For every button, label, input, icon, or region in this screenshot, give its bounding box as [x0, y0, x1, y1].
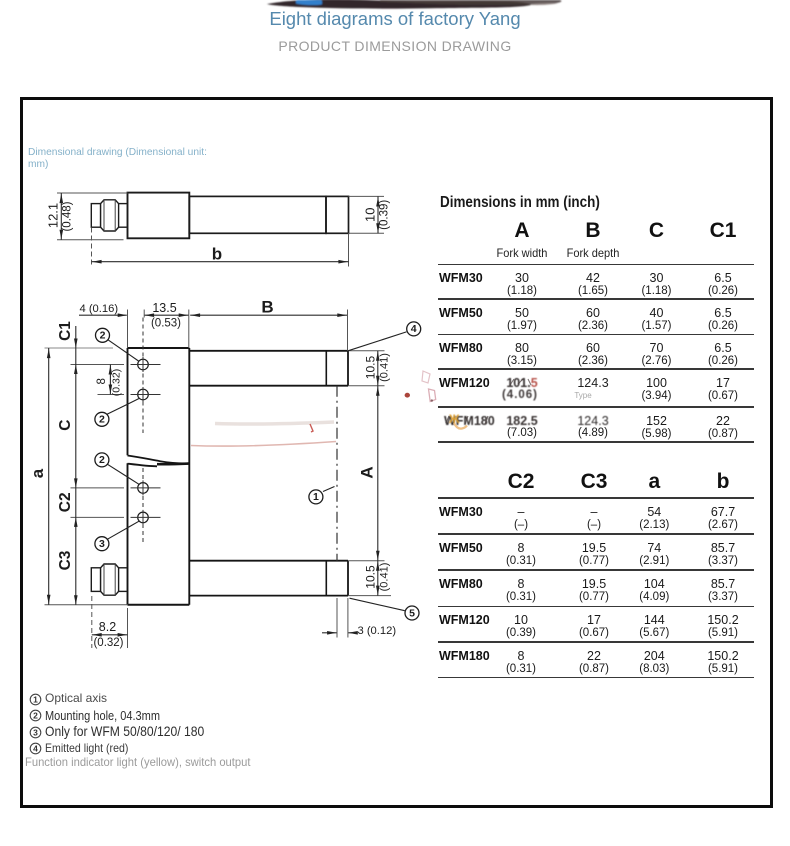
- svg-text:10.5: 10.5: [363, 355, 377, 379]
- svg-text:A: A: [357, 466, 376, 478]
- svg-text:2: 2: [33, 710, 38, 720]
- svg-text:C1: C1: [57, 321, 74, 341]
- svg-text:b: b: [212, 245, 222, 264]
- svg-text:13.5: 13.5: [152, 301, 176, 315]
- svg-text:(0.32): (0.32): [93, 637, 123, 649]
- svg-text:3: 3: [33, 727, 38, 737]
- svg-text:5: 5: [409, 607, 415, 619]
- svg-text:C2: C2: [57, 492, 74, 512]
- svg-text:(0.48): (0.48): [62, 201, 74, 231]
- svg-text:C: C: [57, 420, 74, 431]
- svg-text:3 (0.12): 3 (0.12): [358, 625, 397, 637]
- svg-text:12.1: 12.1: [45, 203, 60, 228]
- svg-text:a: a: [28, 468, 47, 478]
- svg-text:4: 4: [33, 743, 38, 753]
- svg-text:(0.53): (0.53): [151, 318, 181, 330]
- svg-text:4: 4: [411, 323, 417, 335]
- svg-text:10.5: 10.5: [363, 565, 377, 589]
- svg-text:8.2: 8.2: [99, 620, 116, 634]
- svg-text:2: 2: [100, 330, 106, 342]
- svg-text:(0.41): (0.41): [379, 563, 391, 592]
- svg-text:B: B: [261, 298, 273, 317]
- svg-text:(0.41): (0.41): [379, 353, 391, 382]
- svg-text:1: 1: [33, 694, 38, 704]
- svg-text:8: 8: [96, 378, 108, 384]
- svg-text:2: 2: [99, 414, 105, 426]
- svg-text:1: 1: [313, 491, 319, 503]
- svg-text:4 (0.16): 4 (0.16): [80, 303, 119, 315]
- svg-text:C3: C3: [57, 550, 74, 570]
- svg-text:(0.39): (0.39): [378, 200, 390, 230]
- svg-text:3: 3: [99, 538, 105, 550]
- svg-text:(0.32): (0.32): [111, 369, 123, 396]
- svg-text:2: 2: [99, 454, 105, 466]
- svg-text:10: 10: [362, 208, 377, 222]
